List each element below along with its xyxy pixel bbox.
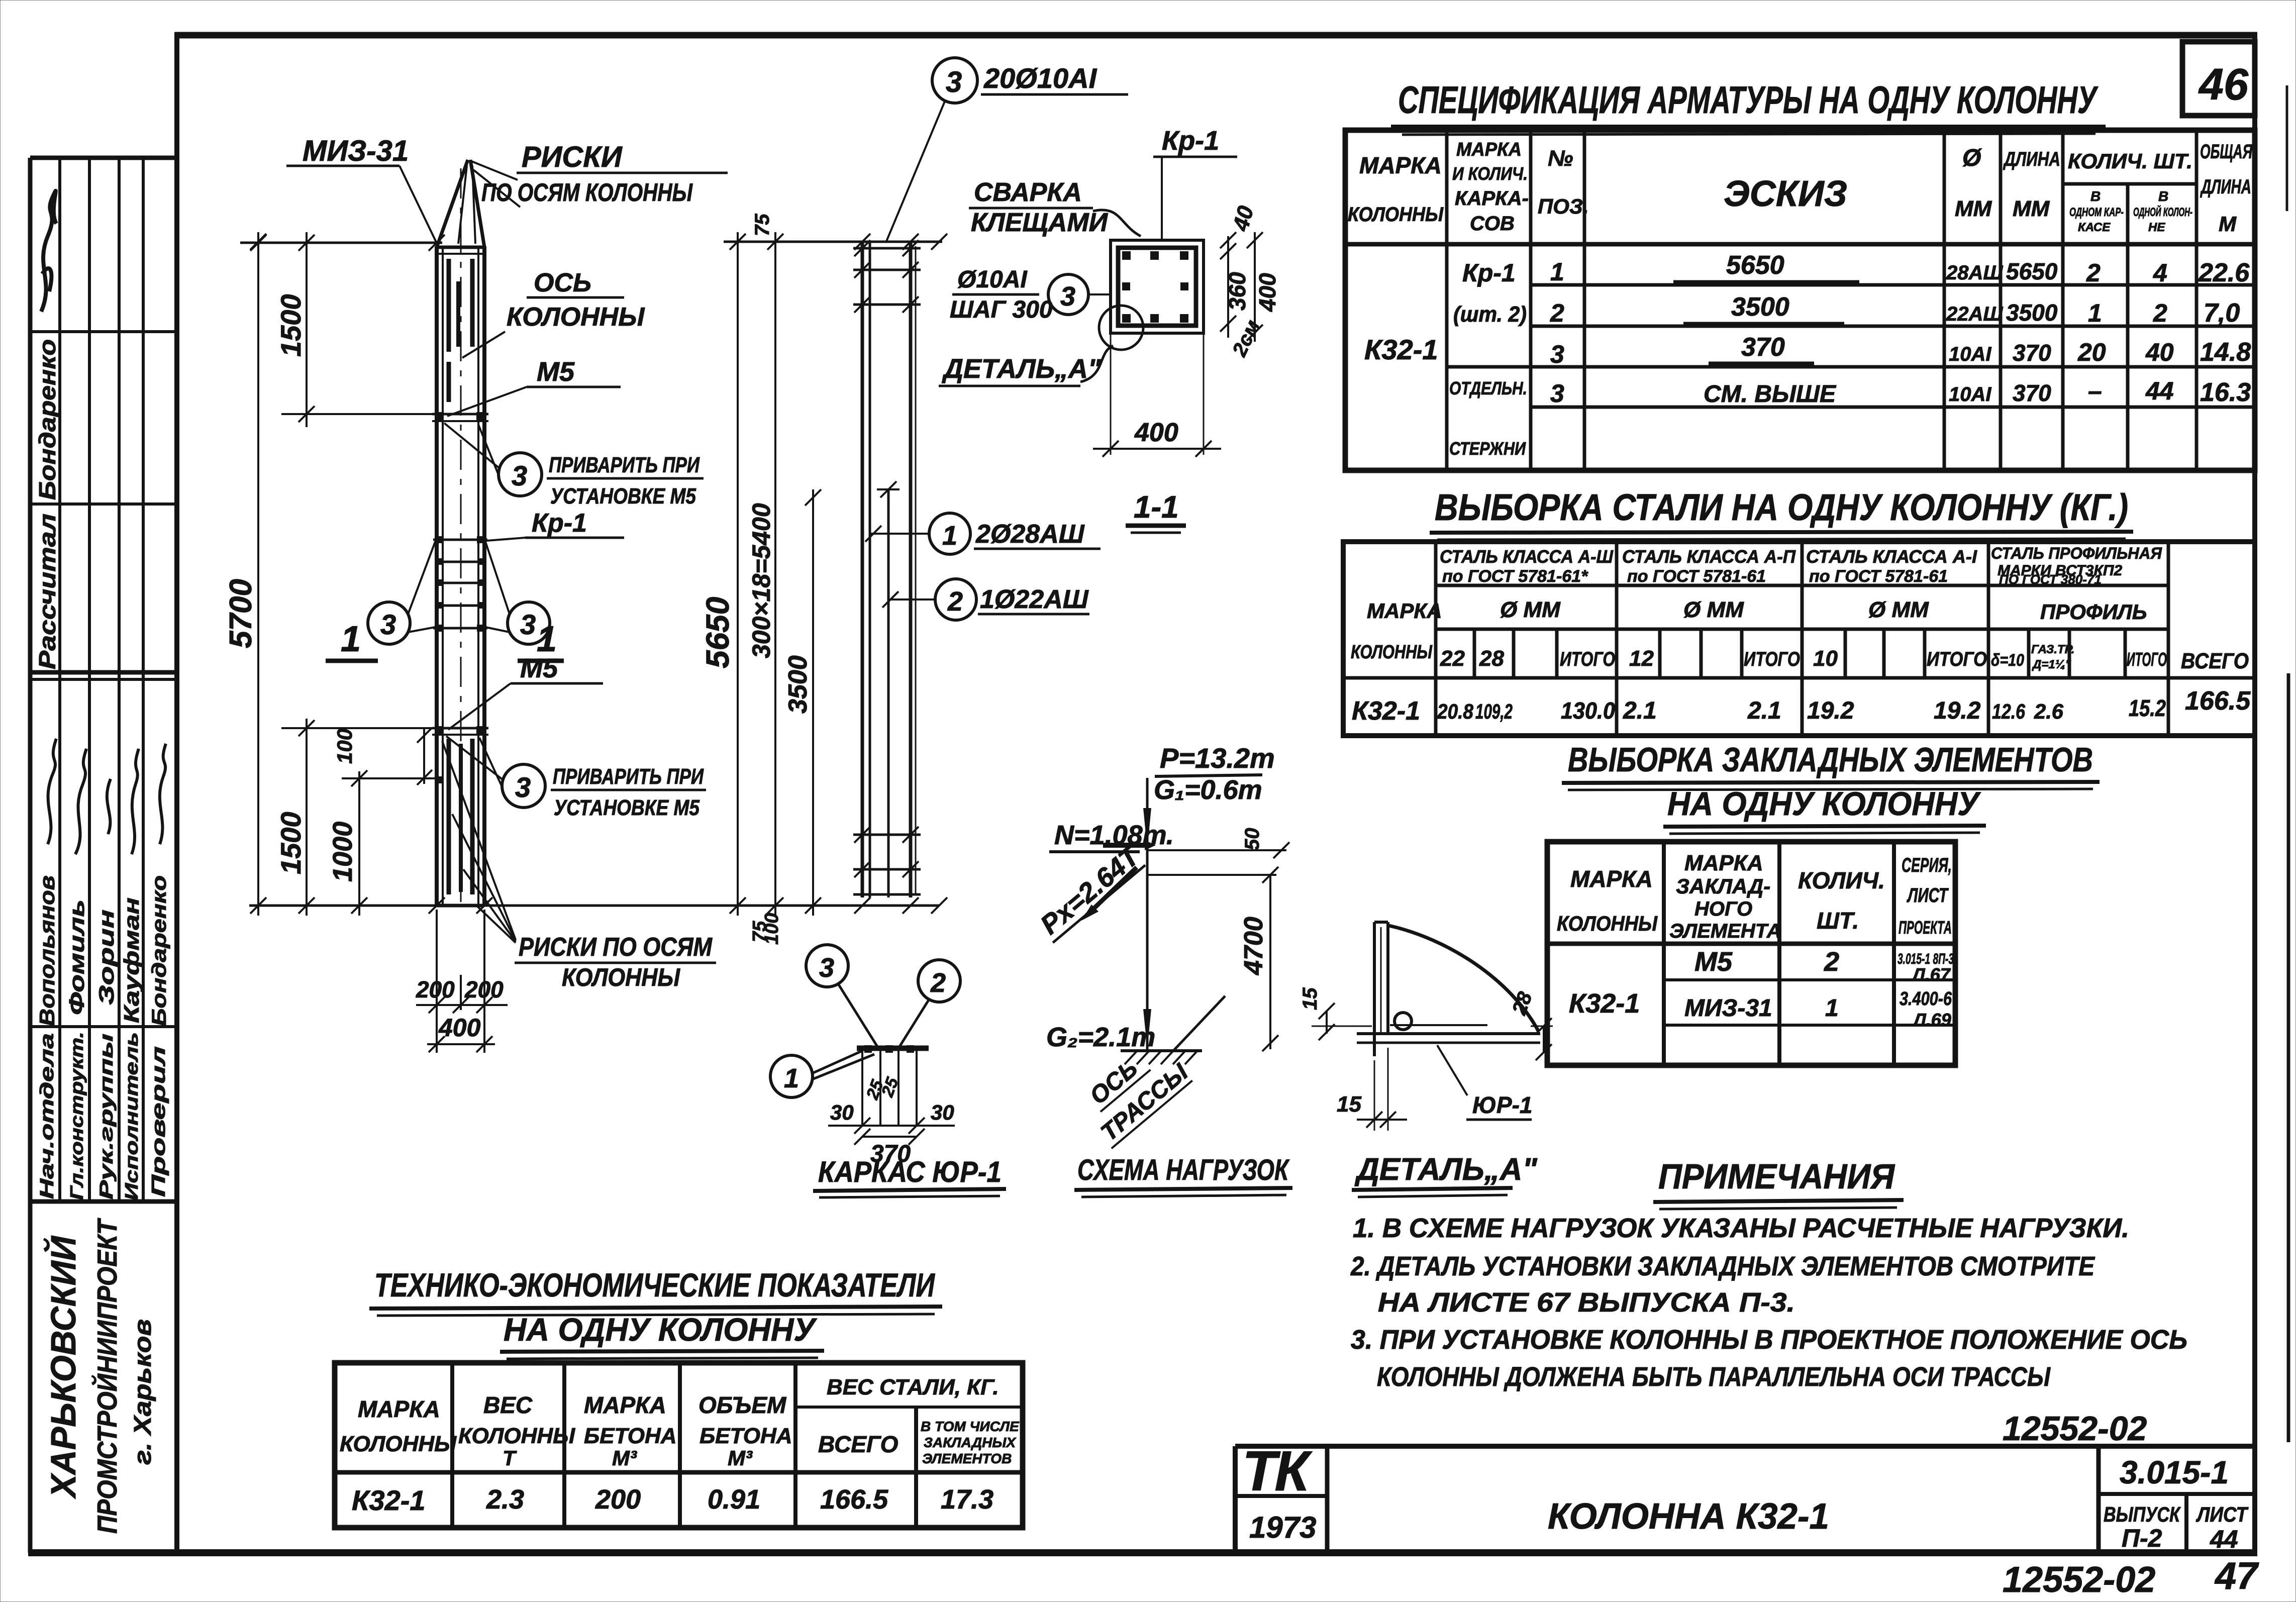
DETAIL-A drawing (1299, 922, 1553, 1197)
svg-text:22.6: 22.6 (2198, 258, 2250, 287)
Kr-1 cage zone in column (433, 539, 487, 541)
STEEL-TABLE grid (1343, 542, 2255, 736)
EMBED-TABLE header (1557, 851, 1952, 942)
svg-text:СТАЛЬ ПРОФИЛЬНАЯ: СТАЛЬ ПРОФИЛЬНАЯ (1991, 544, 2162, 562)
svg-text:СОВ: СОВ (1470, 213, 1515, 235)
small cage (857, 1046, 929, 1051)
svg-text:К32-1: К32-1 (1352, 696, 1420, 726)
svg-text:370: 370 (2013, 380, 2051, 406)
svg-text:ВЕС: ВЕС (483, 1392, 533, 1418)
svg-text:44: 44 (2210, 1525, 2238, 1553)
svg-text:ПОЗ.: ПОЗ. (1538, 194, 1589, 218)
circle 3 right (508, 602, 550, 644)
svg-text:15.2: 15.2 (2129, 695, 2166, 721)
svg-text:ИТОГО: ИТОГО (1560, 648, 1615, 670)
svg-text:ОДНОМ КАР-: ОДНОМ КАР- (2069, 206, 2124, 219)
svg-text:3: 3 (1060, 281, 1075, 312)
svg-text:17.3: 17.3 (941, 1484, 993, 1515)
svg-text:5650: 5650 (2006, 258, 2058, 284)
1500 bottom dim (306, 719, 308, 916)
svg-text:2см: 2см (1228, 317, 1264, 360)
svg-text:ПРИМЕЧАНИЯ: ПРИМЕЧАНИЯ (1658, 1157, 1895, 1196)
svg-text:Кр-1: Кр-1 (1462, 259, 1516, 287)
svg-text:КЛЕЩАМИ: КЛЕЩАМИ (971, 208, 1109, 237)
svg-text:200: 200 (595, 1484, 641, 1515)
svg-text:УСТАНОВКЕ М5: УСТАНОВКЕ М5 (550, 484, 696, 509)
svg-text:ОБЩАЯ: ОБЩАЯ (2200, 141, 2253, 163)
svg-text:2: 2 (1550, 299, 1564, 327)
svg-text:МАРКА: МАРКА (1456, 139, 1522, 160)
svg-text:370: 370 (1741, 333, 1785, 362)
svg-text:130.0: 130.0 (1561, 697, 1615, 724)
detail circle at corner (1099, 306, 1143, 350)
svg-text:360: 360 (1224, 272, 1250, 311)
svg-text:(шт. 2): (шт. 2) (1453, 302, 1527, 327)
svg-text:СЕРИЯ,: СЕРИЯ, (1902, 854, 1952, 876)
TEP-TABLE data (352, 1484, 993, 1516)
svg-text:ПРИВАРИТЬ ПРИ: ПРИВАРИТЬ ПРИ (553, 764, 704, 789)
svg-text:по ГОСТ 5781-61*: по ГОСТ 5781-61* (1442, 567, 1588, 586)
svg-text:В: В (2090, 188, 2101, 204)
svg-text:М5: М5 (1694, 947, 1733, 977)
svg-text:СВАРКА: СВАРКА (974, 178, 1082, 207)
svg-text:3500: 3500 (783, 655, 813, 714)
svg-text:ВСЕГО: ВСЕГО (2181, 649, 2249, 673)
svg-text:10: 10 (1813, 646, 1838, 671)
bottom shared dim line (249, 905, 940, 907)
svg-text:1: 1 (784, 1063, 799, 1093)
svg-text:20.8: 20.8 (1437, 699, 1473, 723)
svg-text:ИТОГО: ИТОГО (1927, 648, 1987, 670)
svg-text:КОЛОННЫ: КОЛОННЫ (1557, 912, 1658, 935)
M5 embed lower (432, 727, 488, 730)
svg-text:4: 4 (2153, 259, 2167, 287)
svg-text:P=13.2т: P=13.2т (1160, 742, 1275, 774)
svg-text:Ø ММ: Ø ММ (1683, 597, 1744, 622)
circle 3 lower privarit (502, 764, 545, 808)
svg-text:МАРКА: МАРКА (1684, 851, 1763, 875)
svg-text:Л.67: Л.67 (1911, 964, 1951, 985)
svg-text:2: 2 (1824, 947, 1839, 977)
svg-text:1000: 1000 (328, 822, 358, 882)
svg-text:ДЛИНА: ДЛИНА (2003, 148, 2060, 170)
svg-text:КОЛОННЫ: КОЛОННЫ (1348, 204, 1444, 226)
svg-text:5700: 5700 (224, 579, 258, 648)
1500 top dim (306, 232, 308, 427)
svg-text:166.5: 166.5 (2185, 686, 2251, 716)
100 dim (423, 728, 425, 784)
svg-text:2: 2 (2153, 299, 2167, 327)
svg-text:370: 370 (2013, 340, 2051, 366)
svg-text:20: 20 (2077, 338, 2106, 366)
svg-text:ЛИСТ: ЛИСТ (1907, 884, 1949, 907)
svg-text:ЭЛЕМЕНТА: ЭЛЕМЕНТА (1669, 920, 1781, 942)
svg-text:Px=2.64Т: Px=2.64Т (1035, 840, 1146, 940)
svg-text:Кауфман: Кауфман (120, 897, 143, 1023)
top dim line (240, 242, 442, 244)
svg-text:по ГОСТ 5781-61: по ГОСТ 5781-61 (1809, 567, 1948, 586)
svg-text:1. В СХЕМЕ НАГРУЗОК УКАЗАНЫ РА: 1. В СХЕМЕ НАГРУЗОК УКАЗАНЫ РАСЧЕТНЫЕ НА… (1353, 1213, 2129, 1243)
svg-text:2.1: 2.1 (1747, 697, 1781, 724)
svg-text:ГАЗ.ТР.: ГАЗ.ТР. (2031, 643, 2074, 656)
svg-text:3. ПРИ УСТАНОВКЕ КОЛОННЫ В ПРО: 3. ПРИ УСТАНОВКЕ КОЛОННЫ В ПРОЕКТНОЕ ПОЛ… (1351, 1325, 2187, 1355)
svg-text:ВЫПУСК: ВЫПУСК (2104, 1503, 2181, 1526)
COLUMN-DIMENSIONS left (224, 232, 940, 1053)
EMBED-TABLE title (1562, 741, 2100, 834)
svg-text:7,0: 7,0 (2204, 298, 2240, 328)
svg-text:3.400-6: 3.400-6 (1900, 988, 1952, 1010)
svg-text:2: 2 (930, 968, 946, 998)
svg-text:ВЕС СТАЛИ, КГ.: ВЕС СТАЛИ, КГ. (827, 1375, 999, 1399)
svg-text:КОЛОННЫ: КОЛОННЫ (340, 1432, 457, 1456)
svg-text:Проверил: Проверил (148, 1046, 169, 1197)
svg-text:Нач.отдела: Нач.отдела (37, 1033, 58, 1199)
svg-text:1: 1 (2088, 299, 2102, 327)
svg-text:12552-02: 12552-02 (2003, 1410, 2147, 1448)
svg-text:М³: М³ (612, 1446, 637, 1470)
svg-text:КАРКАС ЮР-1: КАРКАС ЮР-1 (818, 1156, 1002, 1188)
dims (828, 1125, 955, 1127)
svg-text:ЮР-1: ЮР-1 (1472, 1092, 1533, 1118)
svg-text:44: 44 (2145, 377, 2174, 405)
svg-text:5650: 5650 (1726, 251, 1784, 280)
svg-text:Л.69: Л.69 (1912, 1010, 1951, 1030)
TITLE-BLOCK (1235, 1410, 2259, 1600)
svg-text:В: В (2158, 188, 2168, 204)
svg-text:15: 15 (1337, 1092, 1361, 1117)
svg-text:3: 3 (946, 66, 962, 98)
svg-text:50: 50 (1241, 828, 1263, 851)
SPEC-TABLE grid (1345, 130, 2255, 470)
M5 embed top (432, 413, 488, 416)
svg-text:100: 100 (761, 913, 782, 945)
scan shadow right edge (2287, 673, 2290, 1442)
svg-text:ТЕХНИКО-ЭКОНОМИЧЕСКИЕ ПОКАЗАТЕ: ТЕХНИКО-ЭКОНОМИЧЕСКИЕ ПОКАЗАТЕЛИ (374, 1266, 935, 1304)
svg-text:100: 100 (333, 729, 356, 764)
svg-text:БЕТОНА: БЕТОНА (700, 1424, 792, 1448)
LEFT-STAMP-STRIP (30, 158, 177, 1553)
svg-text:1: 1 (942, 521, 957, 551)
svg-text:1: 1 (341, 619, 361, 659)
STEEL-TABLE header (1351, 544, 2249, 673)
svg-text:109,2: 109,2 (1475, 699, 1513, 723)
svg-text:ШАГ 300: ШАГ 300 (950, 296, 1053, 323)
svg-text:МАРКА: МАРКА (1570, 866, 1653, 892)
svg-text:ЛИСТ: ЛИСТ (2195, 1503, 2249, 1526)
svg-text:2.3: 2.3 (486, 1484, 524, 1515)
svg-text:КОЛОННЫ: КОЛОННЫ (458, 1424, 575, 1448)
PAGE-NUMBER-BOX 46 (2182, 42, 2255, 116)
svg-text:КАРКА-: КАРКА- (1455, 187, 1529, 210)
svg-text:ЗАКЛАДНЫХ: ЗАКЛАДНЫХ (924, 1435, 1017, 1450)
right 28 dim (1543, 1026, 1545, 1052)
svg-text:0.91: 0.91 (708, 1484, 760, 1515)
svg-text:ПО ГОСТ 380-71: ПО ГОСТ 380-71 (1999, 572, 2102, 587)
svg-text:СТЕРЖНИ: СТЕРЖНИ (1449, 438, 1526, 459)
svg-text:3: 3 (1550, 340, 1564, 368)
svg-text:Ø ММ: Ø ММ (1500, 597, 1561, 622)
svg-text:10АІ: 10АІ (1949, 383, 1991, 406)
SPEC-TABLE header text (1348, 139, 2253, 236)
SECTION-1-1 (939, 126, 1280, 533)
left 15 dim (1326, 1011, 1328, 1034)
svg-text:400: 400 (438, 1014, 481, 1042)
svg-text:30: 30 (931, 1100, 954, 1124)
signatures squiggles (48, 739, 56, 844)
svg-text:2: 2 (2086, 259, 2101, 287)
svg-text:28: 28 (1479, 646, 1504, 671)
svg-text:№: № (1548, 146, 1573, 171)
svg-text:НОГО: НОГО (1694, 898, 1752, 920)
svg-text:1973: 1973 (1249, 1511, 1316, 1544)
svg-text:40: 40 (1228, 203, 1258, 234)
svg-text:2.1: 2.1 (1623, 697, 1657, 724)
svg-text:Д=1¼": Д=1¼" (2032, 658, 2071, 671)
svg-text:КАСЕ: КАСЕ (2078, 221, 2111, 234)
svg-text:ПРОФИЛЬ: ПРОФИЛЬ (2040, 600, 2147, 624)
svg-text:К32-1: К32-1 (1569, 988, 1640, 1019)
svg-text:15: 15 (1299, 987, 1321, 1010)
svg-text:Вопольянов: Вопольянов (35, 875, 59, 1026)
svg-text:ММ: ММ (1955, 196, 1992, 221)
CAGE-DIMENSIONS (700, 214, 947, 945)
svg-text:Ø ММ: Ø ММ (1868, 597, 1929, 622)
svg-text:4700: 4700 (1239, 917, 1268, 975)
svg-text:М³: М³ (728, 1446, 753, 1470)
svg-text:ИТОГО: ИТОГО (2127, 649, 2167, 670)
svg-text:Зорин: Зорин (94, 910, 118, 1005)
SPEC-TABLE data (1364, 251, 2251, 459)
svg-text:Гл.конструкт.: Гл.конструкт. (66, 1032, 87, 1200)
svg-text:НА ОДНУ КОЛОННУ: НА ОДНУ КОЛОННУ (504, 1312, 818, 1348)
1000 dim (358, 771, 360, 916)
TEP-TABLE grid (335, 1363, 1023, 1528)
svg-text:10АІ: 10АІ (1949, 343, 1991, 365)
axis dashed (460, 168, 462, 902)
svg-text:ВСЕГО: ВСЕГО (818, 1431, 899, 1457)
right dims (1227, 236, 1229, 338)
svg-text:НА ОДНУ КОЛОННУ: НА ОДНУ КОЛОННУ (1667, 785, 1981, 822)
svg-text:СТАЛЬ КЛАССА А-П: СТАЛЬ КЛАССА А-П (1622, 546, 1796, 567)
svg-text:46: 46 (2198, 59, 2249, 109)
svg-text:М5: М5 (520, 653, 558, 683)
svg-text:3500: 3500 (2006, 299, 2058, 326)
svg-text:19.2: 19.2 (1934, 697, 1981, 724)
svg-text:Рук.группы: Рук.группы (96, 1034, 117, 1199)
svg-text:МИЗ-31: МИЗ-31 (1684, 995, 1772, 1022)
svg-text:5650: 5650 (700, 597, 736, 668)
column edges (435, 246, 439, 906)
svg-text:400: 400 (1254, 273, 1280, 312)
svg-text:3: 3 (520, 609, 536, 640)
svg-text:47: 47 (2214, 1555, 2259, 1597)
svg-text:ОСЬ: ОСЬ (534, 268, 591, 297)
COLUMN-LABELS (286, 135, 728, 991)
inner rebar streaks (447, 259, 451, 352)
ties bottom (853, 834, 921, 836)
svg-text:СТАЛЬ КЛАССА А-Ш: СТАЛЬ КЛАССА А-Ш (1440, 546, 1614, 567)
svg-text:2.6: 2.6 (2034, 699, 2064, 723)
ties top (853, 247, 921, 250)
circle 3 left (368, 602, 410, 644)
svg-text:12.6: 12.6 (1992, 699, 2026, 723)
svg-text:ЭЛЕМЕНТОВ: ЭЛЕМЕНТОВ (922, 1451, 1012, 1466)
svg-text:1500: 1500 (275, 294, 307, 357)
svg-text:ОДНОЙ КОЛОН-: ОДНОЙ КОЛОН- (2133, 205, 2192, 219)
bottom 15 dim (1374, 1060, 1375, 1131)
svg-text:3: 3 (819, 953, 834, 983)
svg-text:40: 40 (2145, 338, 2174, 366)
EMBED-TABLE data (1569, 947, 1954, 1030)
COLUMN-ELEVATION (left view) (432, 160, 488, 906)
svg-text:22: 22 (1440, 646, 1465, 671)
svg-text:3.015-1: 3.015-1 (2120, 1454, 2229, 1490)
svg-text:3: 3 (512, 460, 527, 491)
svg-text:16.3: 16.3 (2200, 378, 2251, 407)
KARKAS-SKETCH (Каркас Юр-1) (770, 945, 1006, 1197)
svg-text:КОЛОННЫ ДОЛЖЕНА БЫТЬ ПАРАЛЛЕЛЬ: КОЛОННЫ ДОЛЖЕНА БЫТЬ ПАРАЛЛЕЛЬНА ОСИ ТРА… (1377, 1362, 2051, 1392)
svg-text:КОЛОННЫ: КОЛОННЫ (507, 303, 645, 332)
TEP-TABLE header (340, 1375, 1020, 1470)
svg-text:2Ø28АШ: 2Ø28АШ (975, 520, 1085, 549)
svg-text:G₁=0.6т: G₁=0.6т (1154, 775, 1262, 805)
svg-text:Кр-1: Кр-1 (532, 509, 587, 538)
svg-text:12: 12 (1629, 646, 1654, 671)
svg-text:БЕТОНА: БЕТОНА (584, 1424, 677, 1448)
svg-text:М: М (2219, 212, 2237, 236)
svg-text:ЭСКИЗ: ЭСКИЗ (1724, 174, 1847, 214)
svg-text:Исполнитель: Исполнитель (121, 1032, 142, 1200)
svg-text:МАРКА: МАРКА (358, 1396, 440, 1422)
svg-text:ВЫБОРКА СТАЛИ НА ОДНУ КОЛО: ВЫБОРКА СТАЛИ НА ОДНУ КОЛОННУ (КГ.) (1435, 486, 2128, 528)
svg-text:ИТОГО: ИТОГО (1744, 648, 1800, 670)
svg-text:2. ДЕТАЛЬ УСТАНОВКИ ЗАКЛАДНЫХ: 2. ДЕТАЛЬ УСТАНОВКИ ЗАКЛАДНЫХ ЭЛЕМЕНТОВ … (1350, 1251, 2095, 1281)
svg-text:Бондаренко: Бондаренко (34, 339, 60, 500)
svg-text:200: 200 (416, 976, 455, 1003)
svg-text:200: 200 (464, 976, 504, 1003)
svg-text:ПРОЕКТА: ПРОЕКТА (1899, 917, 1952, 938)
svg-text:ДЕТАЛЬ„А": ДЕТАЛЬ„А" (942, 354, 1102, 384)
svg-text:В ТОМ ЧИСЛЕ: В ТОМ ЧИСЛЕ (921, 1419, 1020, 1434)
bottom dim 400 (1093, 448, 1221, 450)
svg-text:МИЗ-31: МИЗ-31 (303, 135, 409, 167)
svg-text:М5: М5 (537, 357, 575, 387)
svg-text:19.2: 19.2 (1807, 697, 1854, 724)
LOAD-SCHEME (Схема нагрузок) (1033, 742, 1292, 1197)
svg-text:СПЕЦИФИКАЦИЯ АРМАТУРЫ НА ОДНУ: СПЕЦИФИКАЦИЯ АРМАТУРЫ НА ОДНУ КОЛОННУ (1398, 79, 2099, 122)
svg-text:Ø: Ø (1962, 145, 1982, 171)
tip triangle (437, 160, 468, 247)
svg-text:НЕ: НЕ (2148, 221, 2165, 234)
svg-text:1: 1 (1825, 995, 1839, 1022)
svg-text:ШТ.: ШТ. (1817, 908, 1859, 934)
svg-text:РИСКИ: РИСКИ (522, 141, 623, 173)
SPEC-TABLE title (1391, 79, 2106, 135)
svg-text:30: 30 (830, 1100, 854, 1124)
svg-text:УСТАНОВКЕ М5: УСТАНОВКЕ М5 (554, 795, 700, 820)
STEEL-TABLE title (1430, 486, 2133, 540)
svg-text:12552-02: 12552-02 (2003, 1560, 2155, 1600)
svg-text:20Ø10АІ: 20Ø10АІ (983, 62, 1097, 94)
NOTES (1350, 1157, 2187, 1392)
svg-text:Т: Т (503, 1446, 517, 1470)
svg-text:И КОЛИЧ.: И КОЛИЧ. (1452, 163, 1528, 184)
svg-text:Рассчитал: Рассчитал (34, 514, 60, 669)
signature top cell (41, 191, 56, 312)
svg-text:2: 2 (947, 586, 963, 617)
svg-text:КОЛИЧ. ШТ.: КОЛИЧ. ШТ. (2068, 149, 2192, 173)
svg-text:–: – (2088, 377, 2102, 405)
svg-text:ДЛИНА: ДЛИНА (2200, 176, 2251, 198)
svg-text:РИСКИ ПО ОСЯМ: РИСКИ ПО ОСЯМ (519, 933, 713, 962)
svg-text:Кр-1: Кр-1 (1162, 126, 1219, 156)
svg-text:3: 3 (515, 771, 531, 803)
svg-text:СТАЛЬ КЛАССА А-І: СТАЛЬ КЛАССА А-І (1806, 546, 1977, 567)
circle 3 privarit (498, 453, 542, 496)
svg-text:по ГОСТ 5781-61: по ГОСТ 5781-61 (1627, 567, 1766, 586)
svg-text:К32-1: К32-1 (1364, 334, 1438, 365)
svg-text:МАРКА: МАРКА (1367, 599, 1442, 623)
svg-text:СХЕМА НАГРУЗОК: СХЕМА НАГРУЗОК (1077, 1154, 1290, 1186)
svg-text:Фомиль: Фомиль (65, 899, 88, 1015)
svg-text:ЗАКЛАД-: ЗАКЛАД- (1676, 874, 1770, 898)
svg-text:400: 400 (1134, 418, 1178, 447)
svg-text:МАРКА: МАРКА (584, 1392, 666, 1418)
svg-text:ММ: ММ (2013, 196, 2050, 221)
end ticks on dim lines (250, 234, 266, 250)
svg-text:3: 3 (380, 609, 396, 640)
svg-text:ТК: ТК (1242, 1440, 1313, 1503)
svg-text:СМ. ВЫШЕ: СМ. ВЫШЕ (1704, 381, 1837, 408)
svg-text:г. Харьков: г. Харьков (130, 1319, 156, 1465)
CAGE-LABELS (865, 58, 1128, 620)
svg-text:1500: 1500 (275, 812, 307, 874)
svg-text:1: 1 (1550, 258, 1564, 286)
svg-text:3500: 3500 (1731, 292, 1789, 322)
TEP-TABLE title (369, 1266, 942, 1359)
svg-text:ОТДЕЛЬН.: ОТДЕЛЬН. (1449, 378, 1527, 398)
svg-text:КОЛИЧ.: КОЛИЧ. (1798, 867, 1885, 893)
svg-text:ПРИВАРИТЬ ПРИ: ПРИВАРИТЬ ПРИ (549, 453, 700, 477)
svg-text:1-1: 1-1 (1134, 490, 1179, 525)
svg-text:22АШ: 22АШ (1946, 303, 2003, 325)
svg-text:δ=10: δ=10 (1991, 651, 2024, 670)
svg-text:14.8: 14.8 (2200, 338, 2251, 367)
svg-text:ОБЪЕМ: ОБЪЕМ (698, 1392, 787, 1418)
svg-text:НА ЛИСТЕ 67 ВЫПУСКА П-3.: НА ЛИСТЕ 67 ВЫПУСКА П-3. (1378, 1287, 1795, 1318)
svg-text:К32-1: К32-1 (352, 1484, 426, 1516)
svg-text:1Ø22АШ: 1Ø22АШ (980, 585, 1089, 614)
svg-text:П-2: П-2 (2122, 1524, 2162, 1552)
svg-text:ВЫБОРКА ЗАКЛАДНЫХ ЭЛЕМЕНТОВ: ВЫБОРКА ЗАКЛАДНЫХ ЭЛЕМЕНТОВ (1568, 741, 2093, 779)
CAGE-ELEVATION (middle view) (853, 240, 921, 897)
svg-text:28АШ: 28АШ (1946, 262, 2003, 284)
svg-text:КОЛОННЫ: КОЛОННЫ (1351, 642, 1433, 663)
svg-text:ДЕТАЛЬ„А": ДЕТАЛЬ„А" (1354, 1152, 1538, 1187)
svg-text:Бондаренко: Бондаренко (148, 875, 170, 1026)
svg-text:МАРКА: МАРКА (1359, 152, 1442, 178)
svg-text:G₂=2.1т: G₂=2.1т (1046, 1022, 1155, 1052)
svg-text:КОЛОННА К32-1: КОЛОННА К32-1 (1548, 1496, 1829, 1537)
svg-text:300×18=5400: 300×18=5400 (747, 503, 775, 658)
svg-text:ХАРЬКОВСКИЙ: ХАРЬКОВСКИЙ (43, 1235, 83, 1499)
svg-text:3: 3 (1550, 379, 1564, 408)
svg-text:Ø10АІ: Ø10АІ (957, 266, 1028, 293)
Yur-1 ref (1437, 1045, 1467, 1095)
svg-text:КОЛОННЫ: КОЛОННЫ (562, 963, 680, 991)
bottom 200/200 and 400 dims (436, 910, 438, 1053)
svg-text:166.5: 166.5 (820, 1484, 888, 1515)
